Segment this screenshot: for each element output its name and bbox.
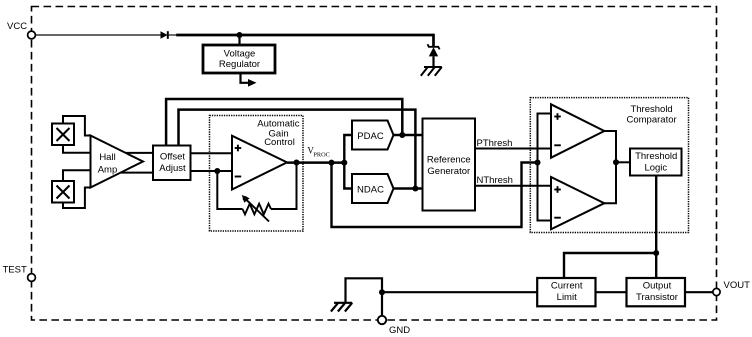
svg-text:Regulator: Regulator [219, 59, 260, 70]
svg-text:PROC: PROC [313, 152, 329, 159]
svg-text:GND: GND [389, 325, 410, 336]
svg-text:PThresh: PThresh [477, 138, 513, 149]
svg-text:VOUT: VOUT [724, 280, 751, 291]
svg-text:Hall: Hall [99, 152, 115, 163]
svg-text:Transistor: Transistor [636, 292, 678, 303]
svg-text:Offset: Offset [160, 151, 186, 162]
svg-text:Comparator: Comparator [627, 114, 677, 125]
svg-text:Output: Output [643, 280, 672, 291]
svg-text:VCC: VCC [7, 21, 27, 32]
svg-text:Control: Control [264, 137, 295, 148]
svg-text:Voltage: Voltage [224, 48, 256, 59]
svg-text:Logic: Logic [644, 162, 667, 173]
svg-text:NDAC: NDAC [357, 185, 384, 196]
svg-text:PDAC: PDAC [357, 131, 384, 142]
svg-text:Generator: Generator [427, 166, 470, 177]
svg-text:TEST: TEST [3, 265, 27, 276]
svg-text:Amp: Amp [98, 165, 118, 176]
svg-text:Adjust: Adjust [159, 163, 186, 174]
svg-text:Limit: Limit [557, 292, 577, 303]
svg-text:Reference: Reference [427, 155, 471, 166]
svg-text:Current: Current [551, 280, 583, 291]
svg-text:NThresh: NThresh [477, 175, 513, 186]
svg-text:Threshold: Threshold [635, 151, 677, 162]
